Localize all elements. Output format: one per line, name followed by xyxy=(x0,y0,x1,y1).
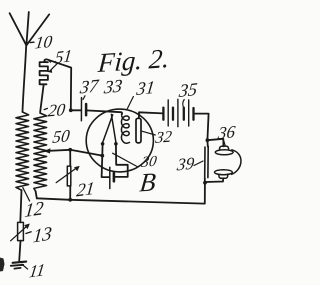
label 20 xyxy=(44,100,67,121)
wire coil12 to 13 xyxy=(20,190,21,222)
phones 36 xyxy=(205,139,241,182)
svg-text:33: 33 xyxy=(102,75,123,97)
svg-text:10: 10 xyxy=(34,32,54,53)
wire antenna lead xyxy=(23,45,27,111)
label 31 xyxy=(127,77,156,110)
coil 12 xyxy=(16,112,29,190)
junction phones top xyxy=(206,138,210,142)
variable capacitor 21 xyxy=(56,150,79,200)
svg-text:32: 32 xyxy=(153,128,172,147)
label 30 xyxy=(113,153,159,171)
junction 21 bottom xyxy=(68,198,72,202)
arrowhead 50 xyxy=(44,148,51,153)
svg-text:35: 35 xyxy=(177,79,198,101)
junction tap xyxy=(100,154,104,158)
label 32 xyxy=(142,128,173,147)
capacitor 39 xyxy=(205,140,209,183)
wire right filament leg xyxy=(115,144,128,177)
filament xyxy=(101,114,118,145)
svg-text:Fig. 2.: Fig. 2. xyxy=(96,43,170,78)
wire tap (50) xyxy=(46,150,103,156)
wire 51 to coil20 xyxy=(40,84,44,112)
plate 32 xyxy=(136,118,141,143)
antenna 10 xyxy=(10,12,50,45)
label 51 xyxy=(47,46,73,73)
label 13 xyxy=(26,223,53,248)
capacitor 37 xyxy=(81,98,86,121)
label 37 xyxy=(78,75,100,99)
variable capacitor 13 xyxy=(11,222,30,261)
label 39 xyxy=(175,153,203,174)
svg-text:12: 12 xyxy=(23,198,45,222)
wire 51 to junction A xyxy=(49,60,71,110)
tube envelope U1 xyxy=(86,109,153,172)
label 12 xyxy=(23,188,45,223)
battery 35 xyxy=(163,99,193,126)
wire left filament leg xyxy=(102,144,110,177)
wire capacitor 37 to grid xyxy=(86,110,122,114)
svg-text:50: 50 xyxy=(51,126,71,147)
svg-text:20: 20 xyxy=(47,100,67,121)
junction 21 top xyxy=(68,148,72,152)
wire bottom xyxy=(37,183,205,204)
wire battery 35 to right xyxy=(195,114,209,141)
label 10 xyxy=(30,32,54,53)
ground 11 xyxy=(11,262,26,269)
svg-text:37: 37 xyxy=(78,75,100,97)
svg-text:11: 11 xyxy=(28,260,46,282)
label 35 xyxy=(177,79,198,108)
wire plate lead xyxy=(139,112,163,118)
resistor 51 xyxy=(40,59,51,84)
junction A xyxy=(69,108,73,112)
svg-text:36: 36 xyxy=(216,122,237,143)
label 11 xyxy=(22,260,46,282)
svg-text:B: B xyxy=(138,167,157,197)
svg-text:21: 21 xyxy=(76,178,96,201)
svg-text:13: 13 xyxy=(32,223,53,248)
label 36 xyxy=(216,122,237,146)
svg-text:39: 39 xyxy=(175,153,196,174)
wire junction A to capacitor 37 xyxy=(71,109,81,111)
coil 20 xyxy=(34,113,47,191)
wire coil20 bottom xyxy=(36,191,37,198)
battery B xyxy=(110,167,114,188)
svg-text:31: 31 xyxy=(135,77,156,99)
junction phones bottom xyxy=(203,181,207,185)
grid coil 31 xyxy=(121,116,129,143)
ink blob xyxy=(0,258,5,272)
